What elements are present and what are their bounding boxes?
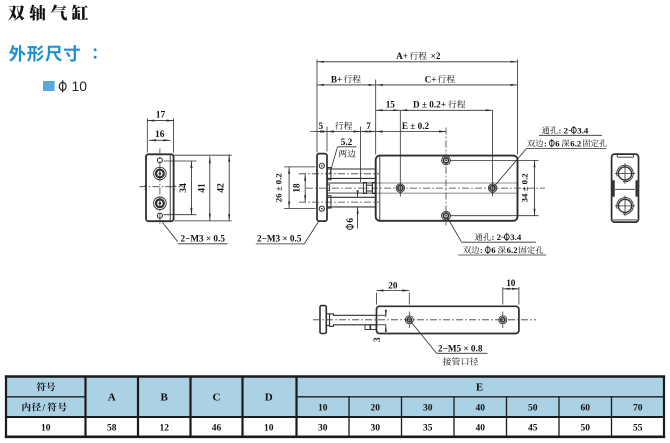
svg-text:10: 10 [506,278,516,288]
bottom view rod wide segment [330,314,377,326]
left view edge notches [145,185,147,187]
upper shaft [327,168,376,170]
left view small hole bottom (M3) [157,213,162,218]
svg-text:46: 46 [212,423,222,433]
svg-text:: 2−: : 2− [492,232,507,242]
bottom view rod lines into body [377,314,386,316]
left view vertical centerline [159,149,161,227]
dim B+stroke [317,84,376,86]
svg-text:6: 6 [555,138,560,148]
plate center boss [327,185,330,191]
svg-text:10: 10 [72,78,88,94]
svg-text:60: 60 [581,403,591,413]
svg-text:50: 50 [528,403,538,413]
svg-text:55: 55 [633,423,643,433]
legend blue square [43,81,55,91]
svg-text:20: 20 [388,280,398,290]
plate screw top [319,163,324,168]
svg-text:B+: B+ [331,74,342,84]
dim 42 [228,155,230,222]
svg-text:B: B [161,391,169,403]
dim 15 [376,109,401,111]
dim text 行程 (stroke) [335,122,352,130]
svg-text:5.2: 5.2 [341,137,353,147]
right view bore bottom (thread circle) [617,198,634,215]
svg-text:: 2−: : 2− [559,125,574,135]
heading 外形尺寸： [9,45,80,62]
dim φ6 [357,192,359,197]
extension line body left [375,80,377,155]
right view side slot left [612,181,614,197]
upper shaft centerline [299,173,379,175]
svg-text:C: C [213,391,221,403]
right view bore top (thread circle) [617,165,634,182]
svg-text:3: 3 [372,337,382,342]
svg-text:26 ± 0.2: 26 ± 0.2 [274,173,284,203]
title 双轴气缸 [8,5,88,21]
dim 17 [147,120,173,122]
svg-text:42: 42 [217,183,227,193]
extension line body right [517,60,519,155]
right view middle line [615,188,635,190]
dim C+stroke [376,84,518,86]
svg-text:10: 10 [318,403,328,413]
fixing hole right centerline/extension [492,111,494,197]
svg-text::: : [544,138,547,148]
extension line plate left [316,60,318,153]
svg-text:A: A [108,391,116,403]
dim 18 [304,174,306,202]
dim 34 (left view) [190,161,192,215]
bottom view plate boss [326,314,329,326]
chained dim line 5/stroke/7/E [311,131,447,133]
fixing hole right [488,184,496,192]
right view top slot [616,154,618,157]
right view side slot right [635,181,637,197]
svg-text:41: 41 [197,183,207,193]
svg-text:30: 30 [318,423,328,433]
svg-text:6.2: 6.2 [507,245,519,255]
svg-text:40: 40 [476,403,486,413]
stopper spool on center rod [363,183,366,194]
label 2-M3x0.5 (left view) leader [163,223,178,242]
extension line stroke end [360,127,362,183]
lower shaft [327,196,376,198]
left view horizontal centerline [140,186,181,188]
svg-text:6: 6 [491,245,496,255]
note top-right line1 通孔: 2-φ3.4 [542,126,558,134]
svg-text:/: / [41,403,45,413]
label 接管口径 [443,357,478,365]
left view right extension lines [174,154,232,156]
dim 10 [503,288,519,290]
table header 符号 [37,382,56,391]
bottom view port hole right (M5) [499,316,507,324]
main body outline [376,156,518,221]
svg-text:10: 10 [41,423,51,433]
svg-text:2−M3 × 0.5: 2−M3 × 0.5 [181,234,226,244]
leader 2-M5x0.8 [411,321,437,353]
svg-text:16: 16 [155,130,165,140]
svg-text:E: E [476,381,483,393]
svg-text:A+: A+ [396,51,408,61]
right view bore top crosshair [615,173,635,175]
port hole top [442,156,451,165]
table grid [5,377,665,437]
svg-text::: : [480,245,483,255]
svg-text:58: 58 [107,423,117,433]
left view inner lip line [169,155,171,221]
svg-text:×2: ×2 [431,51,441,61]
bottom view hole crosshairs [408,312,410,329]
svg-text:45: 45 [528,423,538,433]
svg-text:18: 18 [292,183,302,193]
table header background [6,377,664,418]
svg-text:6.2: 6.2 [570,138,582,148]
dim 20 extensions [376,293,378,305]
dim 3 [385,310,387,317]
svg-text:70: 70 [633,403,643,413]
svg-text:2−M3 × 0.5: 2−M3 × 0.5 [257,234,302,244]
leader 2-M3x0.5 main [304,222,318,244]
svg-text:6: 6 [345,218,355,223]
svg-text:D ± 0.2+: D ± 0.2+ [413,100,446,110]
svg-text:20: 20 [371,403,381,413]
lower shaft centerline [299,201,379,203]
main horizontal centerline [306,187,545,189]
svg-text:50: 50 [581,423,591,433]
svg-text:D: D [265,391,273,403]
svg-text:30: 30 [423,403,433,413]
center rod lines [327,182,376,184]
leader bottom-right note [447,217,461,242]
left view shaft hole top [154,167,167,180]
bottom view screw tabs [365,325,370,330]
svg-text:3.4: 3.4 [577,125,589,135]
svg-text:40: 40 [476,423,486,433]
fixing hole left [396,184,404,192]
dim 10 extensions [502,287,504,305]
left view bracket outline [146,154,174,221]
bottom view plate [320,306,326,334]
right view outline [612,154,639,222]
left view shaft hole bottom [154,197,167,210]
leader 5.2 [330,147,338,174]
bottom view centerline [313,319,536,321]
table header 内径/符号 [22,403,40,412]
left view small hole top (M3) [157,158,162,163]
dim A+stroke x2 [317,61,518,63]
table data row background [6,417,664,437]
lower shaft nut [327,196,331,208]
svg-text:3.4: 3.4 [510,232,522,242]
dim 20 [377,290,410,292]
dim 26±0.2 extensions [284,166,316,168]
svg-text:E ± 0.2: E ± 0.2 [402,121,430,131]
dim 34±0.2 (right) [534,160,536,215]
note bottom-right line1 通孔: 2-φ3.4 [475,233,491,241]
legend label φ10 [59,80,66,92]
svg-text:30: 30 [371,423,381,433]
bottom view port hole left (M5) [405,316,413,324]
note bottom-right line2 双边: φ6深6.2固定孔 [463,246,479,254]
bottom view body [377,306,519,333]
svg-text:7: 7 [366,121,371,131]
main view mounting plate [317,154,327,222]
right view bore bottom crosshair [615,205,635,207]
svg-text:C+: C+ [425,74,437,84]
port vertical centerline [445,128,447,227]
svg-text:5: 5 [319,121,324,131]
plate screw bottom [319,206,324,211]
svg-text:15: 15 [386,100,396,110]
svg-text:34 ± 0.2: 34 ± 0.2 [519,173,529,203]
fixing hole left centerline/extension [399,111,401,197]
dim 34±0.2 extensions (right) [451,159,539,161]
svg-text:34: 34 [179,183,189,193]
svg-text:35: 35 [423,423,433,433]
svg-text:2−M5 × 0.8: 2−M5 × 0.8 [438,343,483,353]
port hole bottom [442,211,451,220]
svg-text:17: 17 [156,111,166,121]
dim 17 extension lines [146,119,148,153]
main body inner left cap line [379,156,381,220]
note top-right line2 双边: φ6深6.2固定孔 [527,139,543,147]
dim 41 [209,156,211,220]
upper shaft nut [327,168,331,180]
dim 26±0.2 [288,167,290,209]
dim text φ6 rotated [345,218,355,230]
leader top-right note [494,148,527,187]
svg-text:10: 10 [264,423,274,433]
extension line plate right [326,127,328,152]
dim 16 [149,139,170,141]
dim D+stroke [400,109,492,111]
right view bottom inner line [613,219,637,221]
svg-text:12: 12 [159,423,169,433]
